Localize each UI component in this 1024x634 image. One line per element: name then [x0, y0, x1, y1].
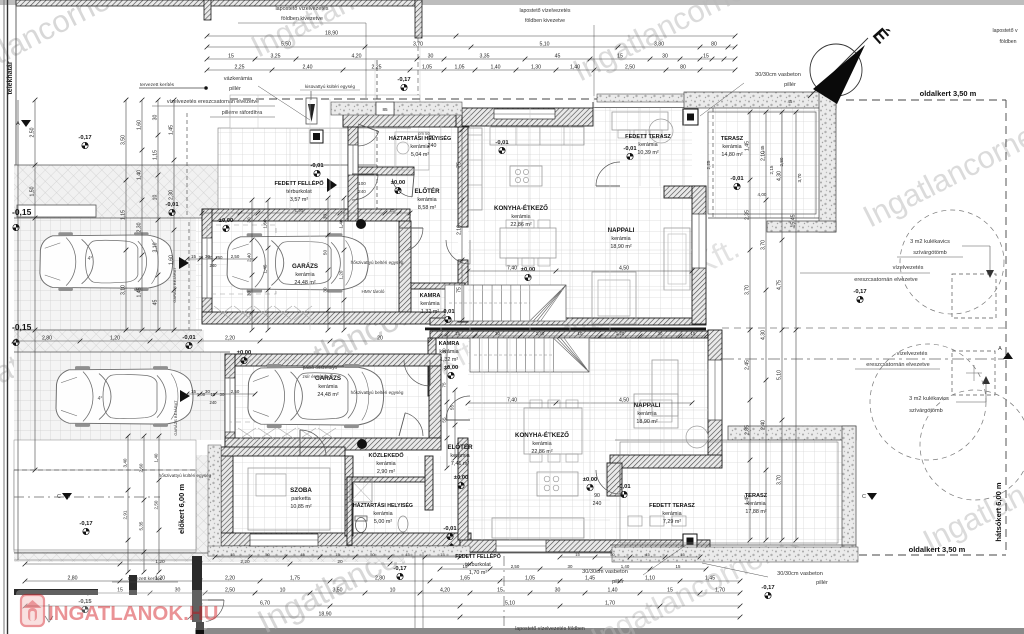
svg-text:A: A	[998, 346, 1002, 352]
svg-text:55: 55	[449, 405, 454, 411]
svg-text:45: 45	[788, 99, 793, 104]
svg-text:1,45: 1,45	[136, 287, 142, 297]
svg-text:C: C	[862, 494, 866, 500]
svg-text:-0,17: -0,17	[853, 289, 866, 295]
svg-text:80: 80	[680, 64, 686, 70]
svg-text:7,29 m²: 7,29 m²	[663, 519, 681, 525]
svg-text:tervezett kerítés: tervezett kerítés	[140, 82, 175, 88]
svg-text:A: A	[16, 121, 20, 127]
svg-text:3 m2 kulékavics: 3 m2 kulékavics	[909, 396, 949, 402]
svg-text:22,86 m²: 22,86 m²	[510, 222, 531, 228]
svg-text:1,70 m²: 1,70 m²	[469, 570, 487, 576]
svg-text:18,90: 18,90	[319, 611, 332, 617]
svg-text:1,05: 1,05	[422, 64, 432, 70]
svg-text:2,40: 2,40	[760, 420, 766, 430]
svg-text:FEDETT FELLÉPŐ: FEDETT FELLÉPŐ	[274, 179, 324, 187]
svg-text:15: 15	[191, 389, 196, 394]
svg-text:±0,00: ±0,00	[237, 350, 251, 356]
svg-text:lapostető vízelvezetés: lapostető vízelvezetés	[275, 6, 328, 12]
svg-text:1,35: 1,35	[295, 208, 304, 213]
svg-text:±0,00: ±0,00	[454, 475, 468, 481]
svg-text:-0,01: -0,01	[623, 146, 637, 152]
svg-text:3,80: 3,80	[654, 41, 664, 47]
svg-text:2,80: 2,80	[375, 575, 385, 581]
svg-text:1,20: 1,20	[338, 270, 343, 279]
svg-text:1,40: 1,40	[490, 64, 500, 70]
svg-text:1,60: 1,60	[262, 219, 267, 228]
svg-text:50: 50	[322, 250, 327, 256]
svg-text:4°: 4°	[88, 256, 93, 262]
svg-text:1,70: 1,70	[715, 587, 725, 593]
svg-text:30: 30	[152, 115, 158, 121]
svg-text:18,90: 18,90	[325, 30, 338, 36]
svg-text:szívárgótömb: szívárgótömb	[913, 250, 947, 256]
svg-text:100: 100	[358, 181, 366, 186]
svg-text:4,50: 4,50	[619, 397, 629, 403]
svg-text:75: 75	[441, 382, 446, 388]
svg-text:3,70: 3,70	[776, 475, 782, 485]
svg-text:4,75: 4,75	[776, 280, 782, 290]
svg-text:2,50: 2,50	[153, 500, 158, 509]
svg-text:55: 55	[441, 417, 446, 423]
svg-text:6,70: 6,70	[260, 600, 270, 606]
svg-text:10: 10	[280, 587, 286, 593]
svg-text:240: 240	[358, 189, 366, 194]
svg-text:-0,15: -0,15	[12, 322, 32, 332]
svg-text:1,65: 1,65	[460, 575, 470, 581]
svg-text:kerámia: kerámia	[376, 461, 395, 467]
svg-text:-0,01: -0,01	[165, 202, 179, 208]
svg-text:ELŐTÉR: ELŐTÉR	[447, 443, 473, 451]
svg-text:1,32 m²: 1,32 m²	[440, 357, 458, 363]
svg-text:1,45: 1,45	[744, 141, 750, 151]
svg-text:1,05: 1,05	[525, 575, 535, 581]
svg-text:vízelvezetés ereszcsatornán el: vízelvezetés ereszcsatornán elvezetve	[167, 99, 259, 105]
svg-text:2,80: 2,80	[779, 157, 784, 166]
svg-text:2,90 m²: 2,90 m²	[377, 469, 395, 475]
svg-text:-0,01: -0,01	[443, 526, 457, 532]
svg-text:3,10: 3,10	[152, 242, 158, 252]
svg-text:±0,00: ±0,00	[391, 180, 405, 186]
svg-text:4,20: 4,20	[440, 587, 450, 593]
svg-text:-0,01: -0,01	[441, 309, 455, 315]
svg-text:2,25: 2,25	[234, 64, 244, 70]
svg-text:-0,17: -0,17	[393, 566, 406, 572]
svg-text:4°: 4°	[98, 396, 103, 402]
svg-text:15: 15	[575, 552, 580, 557]
svg-text:14,80 m²: 14,80 m²	[721, 152, 742, 158]
svg-text:-0,01: -0,01	[182, 335, 196, 341]
svg-text:Ingatlancorner Kft.: Ingatlancorner Kft.	[857, 88, 1024, 234]
svg-text:-0,17: -0,17	[761, 585, 774, 591]
svg-text:FEDETT TERASZ: FEDETT TERASZ	[625, 134, 671, 140]
svg-text:2,30: 2,30	[168, 190, 174, 200]
svg-text:2,25: 2,25	[706, 160, 711, 169]
svg-text:1,15: 1,15	[152, 150, 158, 160]
svg-text:2,40: 2,40	[246, 253, 251, 262]
svg-text:15: 15	[389, 208, 395, 213]
svg-text:30: 30	[568, 564, 573, 569]
svg-text:2,30: 2,30	[136, 222, 142, 232]
svg-text:85: 85	[382, 107, 388, 112]
svg-text:2,10: 2,10	[760, 151, 766, 161]
svg-text:3,70: 3,70	[760, 240, 766, 250]
svg-text:15: 15	[463, 564, 468, 569]
svg-text:2,50: 2,50	[231, 254, 240, 259]
svg-text:2,85: 2,85	[744, 425, 750, 435]
svg-text:18,90 m²: 18,90 m²	[636, 419, 657, 425]
svg-text:előkert 6,00 m: előkert 6,00 m	[177, 484, 186, 534]
svg-text:50: 50	[265, 552, 270, 557]
svg-text:kerámia: kerámia	[511, 214, 530, 220]
svg-text:földben kivezetve: földben kivezetve	[525, 18, 565, 24]
svg-text:1,40: 1,40	[153, 453, 158, 462]
svg-text:vízelvezetés: vízelvezetés	[897, 351, 928, 357]
svg-text:90: 90	[429, 135, 435, 141]
svg-text:1,10: 1,10	[645, 575, 655, 581]
svg-text:1,60: 1,60	[136, 120, 142, 130]
svg-text:30: 30	[322, 287, 327, 293]
svg-text:30: 30	[555, 587, 561, 593]
svg-text:75: 75	[456, 162, 462, 168]
svg-text:ereszcsatornán elvezetve: ereszcsatornán elvezetve	[854, 277, 917, 283]
svg-text:KONYHA-ÉTKEZŐ: KONYHA-ÉTKEZŐ	[494, 204, 548, 212]
svg-text:15: 15	[191, 254, 196, 259]
svg-text:parketta: parketta	[291, 496, 310, 502]
svg-text:-0,17: -0,17	[78, 135, 91, 141]
svg-text:1,45: 1,45	[262, 264, 267, 273]
svg-text:15: 15	[497, 587, 503, 593]
svg-text:TERASZ: TERASZ	[721, 136, 744, 142]
svg-text:lapostető v: lapostető v	[992, 28, 1017, 34]
svg-text:telekhatár: telekhatár	[7, 61, 14, 94]
svg-text:1,15: 1,15	[120, 210, 126, 220]
svg-text:2,10: 2,10	[456, 225, 462, 235]
svg-text:INGATLANOK.HU: INGATLANOK.HU	[48, 602, 218, 625]
svg-text:KAMRA: KAMRA	[420, 293, 441, 299]
svg-text:10,85 m²: 10,85 m²	[290, 504, 311, 510]
svg-text:45: 45	[152, 300, 158, 306]
svg-text:30/30cm vasbeton: 30/30cm vasbeton	[777, 571, 823, 577]
svg-text:3,25: 3,25	[270, 53, 280, 59]
svg-text:30: 30	[495, 331, 500, 336]
svg-text:15: 15	[455, 331, 460, 336]
svg-text:3,50: 3,50	[120, 135, 126, 145]
svg-text:-0,01: -0,01	[495, 140, 509, 146]
svg-text:oldalkert 3,50 m: oldalkert 3,50 m	[909, 545, 966, 554]
svg-text:4,30: 4,30	[776, 171, 782, 181]
svg-text:2,50: 2,50	[225, 587, 235, 593]
svg-text:pillér: pillér	[816, 580, 828, 586]
svg-text:1,50: 1,50	[29, 186, 35, 196]
svg-text:5,04 m²: 5,04 m²	[411, 152, 429, 158]
svg-text:5,10: 5,10	[539, 41, 549, 47]
svg-text:3,35: 3,35	[479, 53, 489, 59]
svg-text:30: 30	[246, 291, 251, 297]
svg-text:hőszivattyú beltéri egység: hőszivattyú beltéri egység	[351, 260, 404, 265]
svg-text:1,40: 1,40	[136, 170, 142, 180]
svg-text:5,10: 5,10	[505, 600, 515, 606]
svg-text:2,50: 2,50	[625, 64, 635, 70]
svg-text:kerámia: kerámia	[295, 272, 314, 278]
svg-text:30: 30	[205, 254, 210, 259]
svg-text:15,45: 15,45	[790, 214, 796, 227]
svg-text:-0,15: -0,15	[12, 207, 32, 217]
svg-text:24,48 m²: 24,48 m²	[294, 280, 315, 286]
svg-text:HÁZTARTÁSI HELYISÉG: HÁZTARTÁSI HELYISÉG	[389, 134, 451, 142]
svg-text:4,50: 4,50	[619, 265, 629, 271]
svg-text:zsír és olajfogó: zsír és olajfogó	[303, 374, 334, 379]
svg-text:2,45: 2,45	[744, 360, 750, 370]
svg-text:É: É	[868, 24, 893, 48]
svg-text:1,32 m²: 1,32 m²	[421, 309, 439, 315]
svg-text:kerámia: kerámia	[318, 384, 337, 390]
svg-text:kerámia: kerámia	[638, 142, 657, 148]
svg-text:45: 45	[555, 53, 561, 59]
svg-text:kerámia: kerámia	[373, 511, 392, 517]
svg-text:2,91: 2,91	[122, 510, 127, 519]
svg-text:HÁZTARTÁSI HELYISÉG: HÁZTARTÁSI HELYISÉG	[353, 501, 413, 509]
svg-text:GARÁZS BEJÁRAT: GARÁZS BEJÁRAT	[172, 267, 177, 303]
svg-text:kerámia: kerámia	[662, 511, 681, 517]
svg-text:15: 15	[617, 53, 623, 59]
svg-text:1,30: 1,30	[531, 64, 541, 70]
svg-text:3,40: 3,40	[122, 458, 127, 467]
svg-text:30: 30	[662, 53, 668, 59]
svg-text:KÖZLEKEDŐ: KÖZLEKEDŐ	[368, 452, 404, 459]
svg-text:15: 15	[228, 53, 234, 59]
svg-text:2,80: 2,80	[67, 575, 77, 581]
svg-text:240: 240	[210, 400, 218, 405]
svg-text:pillérre ráfordítva: pillérre ráfordítva	[222, 110, 262, 116]
svg-text:hőszivattyú kültéri egység: hőszivattyú kültéri egység	[159, 473, 212, 478]
svg-text:pillér: pillér	[612, 579, 624, 585]
svg-text:FEDETT TERASZ: FEDETT TERASZ	[649, 503, 695, 509]
svg-text:2,20: 2,20	[240, 559, 250, 565]
svg-text:±0,00: ±0,00	[444, 365, 458, 371]
svg-text:4,00: 4,00	[758, 192, 767, 197]
svg-text:padló összefolyó: padló összefolyó	[303, 365, 338, 370]
svg-text:45: 45	[405, 552, 410, 557]
svg-text:3,70: 3,70	[797, 173, 802, 182]
svg-text:1,20: 1,20	[110, 335, 120, 341]
svg-text:1,60: 1,60	[168, 255, 174, 265]
svg-text:vízelvezetés: vízelvezetés	[893, 265, 924, 271]
svg-text:lapostető vízelvezetés: lapostető vízelvezetés	[519, 8, 570, 14]
svg-text:50: 50	[370, 552, 375, 557]
svg-text:15: 15	[335, 552, 340, 557]
svg-text:KONYHA-ÉTKEZŐ: KONYHA-ÉTKEZŐ	[515, 431, 569, 439]
svg-text:oldalkert 3,50 m: oldalkert 3,50 m	[920, 89, 977, 98]
svg-text:-0,01: -0,01	[310, 163, 324, 169]
svg-text:1,45: 1,45	[744, 495, 750, 505]
svg-text:2,50: 2,50	[29, 127, 35, 137]
svg-text:7,41 m²: 7,41 m²	[451, 461, 469, 467]
svg-text:4,30: 4,30	[760, 330, 766, 340]
svg-text:vázkerámia: vázkerámia	[224, 76, 253, 82]
svg-text:18,90 m²: 18,90 m²	[610, 244, 631, 250]
svg-text:kisüvattyú kültéri egység: kisüvattyú kültéri egység	[305, 84, 355, 89]
svg-text:30/30cm vasbeton: 30/30cm vasbeton	[755, 72, 801, 78]
svg-text:pillér: pillér	[229, 86, 241, 92]
svg-text:pillér: pillér	[784, 82, 796, 88]
svg-text:90: 90	[594, 493, 600, 499]
svg-text:tervezett kerítés: tervezett kerítés	[128, 576, 163, 582]
svg-text:10: 10	[152, 195, 158, 201]
svg-text:30/30cm vasbeton: 30/30cm vasbeton	[582, 569, 628, 575]
svg-text:földben: földben	[999, 39, 1016, 45]
svg-text:24,48 m²: 24,48 m²	[317, 392, 338, 398]
svg-text:1,05: 1,05	[454, 64, 464, 70]
svg-text:FEDETT FELLÉPŐ: FEDETT FELLÉPŐ	[455, 552, 501, 560]
svg-text:±0,00: ±0,00	[521, 267, 535, 273]
svg-text:2,50: 2,50	[231, 389, 240, 394]
svg-text:1,40: 1,40	[607, 587, 617, 593]
svg-text:HMV tároló: HMV tároló	[362, 289, 385, 294]
svg-text:15: 15	[667, 587, 673, 593]
svg-text:30: 30	[246, 217, 251, 223]
svg-text:1,20: 1,20	[616, 331, 625, 336]
svg-text:földben kivezetve: földben kivezetve	[281, 16, 323, 22]
svg-text:80: 80	[711, 41, 717, 47]
svg-text:-0,17: -0,17	[397, 77, 410, 83]
svg-text:240: 240	[428, 143, 437, 149]
svg-text:15: 15	[211, 392, 216, 397]
svg-text:±0,00: ±0,00	[219, 218, 233, 224]
svg-text:4,20: 4,20	[351, 53, 361, 59]
svg-text:1,40: 1,40	[621, 564, 630, 569]
svg-text:17,88 m²: 17,88 m²	[745, 509, 766, 515]
svg-text:15: 15	[440, 552, 445, 557]
svg-text:50: 50	[610, 552, 615, 557]
svg-text:20: 20	[337, 559, 343, 565]
svg-text:2,35: 2,35	[744, 210, 750, 220]
svg-text:3,10: 3,10	[120, 285, 126, 295]
svg-text:5,00 m²: 5,00 m²	[374, 519, 392, 525]
svg-text:2,40: 2,40	[302, 64, 312, 70]
svg-text:240: 240	[210, 263, 218, 268]
svg-text:15: 15	[676, 564, 681, 569]
svg-text:240: 240	[593, 501, 602, 507]
svg-text:7,40: 7,40	[507, 397, 517, 403]
svg-text:hőszivattyú beltéri egység: hőszivattyú beltéri egység	[351, 390, 404, 395]
svg-text:Ingatlancorner Kft.: Ingatlancorner Kft.	[917, 412, 1024, 558]
svg-text:KAMRA: KAMRA	[439, 341, 460, 347]
svg-text:30: 30	[205, 389, 210, 394]
svg-text:GARÁZS BEJÁRAT: GARÁZS BEJÁRAT	[173, 400, 178, 436]
svg-text:1,75: 1,75	[290, 575, 300, 581]
svg-text:kerámia: kerámia	[611, 236, 630, 242]
svg-text:1,45: 1,45	[705, 575, 715, 581]
svg-text:1,40: 1,40	[570, 64, 580, 70]
svg-text:kerámia: kerámia	[450, 453, 469, 459]
svg-text:30: 30	[658, 331, 663, 336]
svg-text:2,40: 2,40	[536, 331, 545, 336]
svg-text:15: 15	[680, 552, 685, 557]
svg-text:15: 15	[703, 53, 709, 59]
svg-text:kerámia: kerámia	[532, 441, 551, 447]
svg-text:2,25: 2,25	[371, 64, 381, 70]
svg-text:10: 10	[390, 587, 396, 593]
svg-text:2,20: 2,20	[225, 335, 235, 341]
svg-text:2,60: 2,60	[138, 463, 143, 472]
svg-text:SZOBA: SZOBA	[290, 487, 312, 494]
svg-text:3,70: 3,70	[744, 285, 750, 295]
svg-text:45: 45	[300, 552, 305, 557]
svg-text:2,15: 2,15	[769, 165, 774, 174]
svg-text:30: 30	[220, 392, 225, 397]
svg-text:2,20: 2,20	[225, 575, 235, 581]
svg-text:lapostető vízelvezetés földben: lapostető vízelvezetés földben	[515, 626, 585, 632]
svg-text:-0,01: -0,01	[730, 176, 744, 182]
svg-text:-0,01: -0,01	[617, 484, 631, 490]
svg-text:20: 20	[377, 335, 383, 341]
svg-text:3,57 m²: 3,57 m²	[290, 197, 308, 203]
svg-text:30: 30	[428, 53, 434, 59]
svg-text:1,45: 1,45	[585, 575, 595, 581]
svg-text:1,70: 1,70	[605, 600, 615, 606]
svg-text:1,45: 1,45	[168, 125, 174, 135]
svg-text:7,40: 7,40	[507, 265, 517, 271]
svg-text:3 m2 kulékavics: 3 m2 kulékavics	[910, 239, 950, 245]
svg-text:2,80: 2,80	[42, 335, 52, 341]
svg-text:hátsókert 6,00 m: hátsókert 6,00 m	[994, 482, 1003, 542]
svg-text:5,10: 5,10	[776, 370, 782, 380]
svg-text:kerámia: kerámia	[417, 197, 436, 203]
svg-text:1,40: 1,40	[338, 219, 343, 228]
svg-text:2,50: 2,50	[511, 564, 520, 569]
svg-text:75: 75	[456, 287, 462, 293]
svg-text:-0,17: -0,17	[79, 521, 92, 527]
svg-text:3,50: 3,50	[332, 587, 342, 593]
svg-text:22,86 m²: 22,86 m²	[531, 449, 552, 455]
svg-text:15: 15	[691, 331, 696, 336]
svg-text:15: 15	[230, 552, 235, 557]
svg-text:5,35: 5,35	[138, 521, 143, 530]
svg-text:10,39 m²: 10,39 m²	[637, 150, 658, 156]
svg-text:30: 30	[322, 214, 327, 220]
svg-text:45: 45	[645, 552, 650, 557]
svg-text:3,70: 3,70	[413, 41, 423, 47]
svg-text:8,58 m²: 8,58 m²	[418, 205, 436, 211]
svg-text:30: 30	[441, 348, 446, 354]
svg-text:ereszcsatornán elvezetve: ereszcsatornán elvezetve	[866, 362, 929, 368]
svg-text:kerámia: kerámia	[722, 144, 741, 150]
svg-text:szívárgótömb: szívárgótömb	[909, 408, 943, 414]
svg-text:ELŐTÉR: ELŐTÉR	[414, 187, 440, 195]
svg-text:GARÁZS: GARÁZS	[292, 263, 318, 270]
svg-text:kerámia: kerámia	[420, 301, 439, 307]
svg-text:10: 10	[578, 331, 583, 336]
svg-text:5,50: 5,50	[281, 41, 291, 47]
